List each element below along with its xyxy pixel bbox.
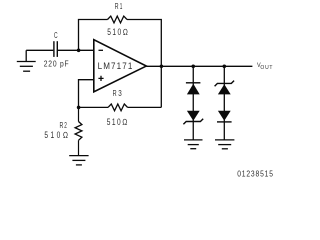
node right diode branch junction dot [223,65,227,69]
resistor R3 [108,104,128,111]
wire right clamp branch [223,66,225,139]
wire left clamp branch [192,66,194,139]
svg-text:3: 3 [118,88,122,98]
svg-text:R: R [60,120,64,130]
zener diode Z2 (cathode up) [215,81,235,95]
svg-text:510Ω: 510Ω [107,27,129,37]
diode D1 (cathode up) [186,83,201,95]
resistor R1 [108,16,128,23]
svg-text:OUT: OUT [260,65,273,71]
svg-text:01238515: 01238515 [237,169,274,179]
wire ground to capacitor [26,49,53,51]
svg-text:R: R [113,88,117,98]
svg-text:R: R [115,1,119,11]
node left diode branch junction dot [191,65,195,69]
op-amp U1 LM7171 [94,40,147,92]
svg-text:1: 1 [120,1,123,11]
diode D2 (cathode down) [217,111,232,122]
ground (below R2) [69,156,88,165]
wire non-inverting input down to R2/R3 node [79,80,94,108]
svg-text:LM7171: LM7171 [98,60,134,71]
capacitor C [54,41,57,57]
resistor R2 [75,107,82,155]
label Vout [257,62,273,72]
node at inverting input (junction dot) [77,49,81,53]
svg-text:C: C [54,32,58,41]
svg-text:510Ω: 510Ω [107,117,129,127]
ground (right clamp) [215,140,234,149]
svg-text:510Ω: 510Ω [44,130,70,140]
svg-text:220 pF: 220 pF [44,59,70,69]
wire op-amp output to Vout [146,65,252,67]
ground (input, left) [17,50,36,71]
wire capacitor to inverting input [58,49,94,51]
wire feedback loop from inverting node over R1 down to output node [79,20,162,108]
node R2/R3 junction dot [77,106,81,110]
svg-text:2: 2 [64,120,67,130]
node output/feedback junction dot [160,65,164,69]
wire R3 branch [79,106,162,108]
zener diode Z1 (cathode down) [183,111,203,125]
ground (left clamp) [184,140,203,149]
